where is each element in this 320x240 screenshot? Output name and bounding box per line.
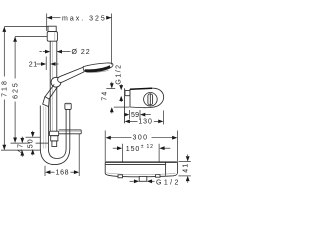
svg-text:625: 625: [12, 81, 19, 99]
svg-text:21: 21: [29, 61, 38, 68]
svg-text:150: 150: [126, 146, 140, 153]
svg-text:300: 300: [133, 135, 149, 142]
svg-text:718: 718: [1, 79, 8, 97]
svg-text:± 12: ± 12: [141, 144, 154, 150]
svg-text:G1/2: G1/2: [116, 63, 123, 84]
svg-text:Ø 22: Ø 22: [72, 49, 91, 56]
svg-text:max. 325: max. 325: [62, 16, 107, 23]
svg-text:168: 168: [56, 170, 70, 177]
svg-text:74: 74: [102, 91, 109, 101]
svg-text:41: 41: [183, 163, 190, 173]
svg-text:G1/2: G1/2: [156, 180, 181, 187]
svg-text:50: 50: [28, 138, 35, 148]
svg-text:130: 130: [138, 119, 152, 126]
svg-text:47: 47: [17, 143, 24, 153]
